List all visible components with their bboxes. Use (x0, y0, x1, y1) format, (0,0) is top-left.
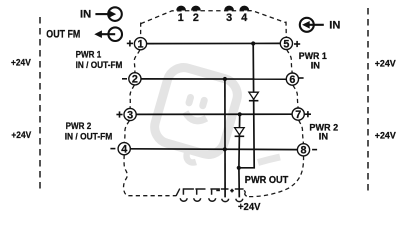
svg-text:7: 7 (295, 109, 301, 121)
svg-text:+24V: +24V (375, 130, 396, 140)
watermark logo ghost (151, 64, 242, 159)
junction node row 3 (238, 112, 242, 116)
DIP switch bump 4 (239, 6, 249, 11)
svg-text:+24V: +24V (238, 201, 261, 213)
wire row 1 (terminal 1 to 5) (147, 42, 281, 44)
svg-text:IN: IN (80, 9, 91, 21)
T-BUS fork 4 (minus) (221, 189, 229, 202)
svg-text:OUT FM: OUT FM (46, 28, 80, 40)
svg-text:+24V: +24V (11, 58, 31, 68)
svg-text:IN / OUT-FM: IN / OUT-FM (65, 131, 113, 141)
terminal 8 (297, 144, 309, 157)
polarity + terminal 3 (116, 111, 122, 117)
junction node row 2 (223, 77, 227, 81)
wire vertical A (from row 1 through D1 to jog) (239, 44, 255, 168)
svg-text:PWR OUT: PWR OUT (245, 175, 288, 186)
T-BUS fork 3 (209, 189, 220, 201)
terminal 3 (124, 108, 136, 121)
wire vertical C (from row 3 through D2 to fork 5) (238, 114, 241, 197)
signal icon OUT FM (arrow out of circle) (94, 27, 122, 41)
watermark pin dots (185, 92, 209, 111)
svg-text:5: 5 (283, 38, 289, 50)
junction node jog (237, 166, 241, 170)
svg-text:IN: IN (319, 132, 329, 142)
T-BUS fork 5 (plus) (235, 189, 244, 202)
terminal 1 (134, 38, 146, 51)
polarity + terminal 7 (305, 111, 311, 117)
svg-text:PWR 1: PWR 1 (76, 50, 102, 60)
left cabinet wall (dashed) (39, 17, 41, 193)
polarity - terminal 2 (122, 78, 127, 80)
wire row 2 (terminal 2 to 6) (141, 78, 286, 80)
svg-text:2: 2 (132, 74, 138, 86)
polarity - terminal 4 (110, 148, 115, 150)
diode D1 (249, 92, 259, 101)
svg-text:IN / OUT-FM: IN / OUT-FM (76, 60, 123, 70)
wire row 4 (terminal 4 to 8) (130, 148, 297, 151)
T-BUS fork 1 (180, 189, 194, 201)
module outline: left edge dashed segments (124, 23, 176, 196)
DIP switch bump 3 (224, 6, 234, 11)
svg-text:4: 4 (241, 12, 247, 24)
terminal 5 (280, 37, 292, 50)
svg-text:8: 8 (300, 145, 306, 157)
signal icon IN right (arrow into circle from right) (300, 18, 324, 32)
svg-text:6: 6 (289, 74, 295, 86)
module outline: right edge dashed segments (247, 22, 304, 197)
fork plus sign (230, 189, 234, 193)
svg-text:PWR 2: PWR 2 (66, 121, 92, 131)
polarity - terminal 8 (312, 149, 317, 151)
polarity + terminal 1 (127, 40, 133, 46)
wire vertical B (minus bus row2-row4 to fork 4) (224, 79, 226, 197)
svg-text:3: 3 (127, 109, 133, 121)
svg-text:1: 1 (137, 39, 143, 51)
terminal 4 (118, 143, 130, 156)
diode D2 (235, 128, 245, 137)
signal icon IN (arrow into circle) (95, 7, 121, 21)
svg-text:+24V: +24V (11, 130, 31, 140)
junction node row 4 (223, 147, 227, 151)
module outline: top edge dashed (141, 11, 286, 24)
DIP switch bump 1 (176, 6, 186, 11)
right cabinet wall (dashed) (367, 8, 369, 195)
svg-text:IN: IN (329, 19, 340, 31)
terminal 7 (292, 108, 304, 121)
polarity - terminal 6 (299, 77, 304, 79)
polarity + terminal 5 (294, 41, 300, 47)
svg-text:2: 2 (193, 12, 199, 24)
junction node row 1 (251, 41, 255, 45)
wire row 3 (terminal 3 to 7) (136, 113, 292, 115)
DIP switch bump 2 (191, 6, 201, 11)
watermark stray band (258, 157, 280, 163)
svg-text:+24V: +24V (375, 58, 396, 68)
terminal 2 (129, 73, 141, 86)
svg-text:1: 1 (178, 12, 184, 24)
module outline: bottom edge slash (176, 189, 180, 196)
svg-text:3: 3 (226, 12, 232, 24)
svg-text:4: 4 (121, 144, 127, 156)
T-BUS fork 2 (194, 189, 206, 201)
fork minus sign (216, 189, 220, 191)
bottom edge hook after fork 5 (244, 190, 247, 196)
terminal 6 (286, 73, 298, 86)
svg-text:IN: IN (311, 60, 321, 70)
watermark corner curl (187, 149, 196, 162)
